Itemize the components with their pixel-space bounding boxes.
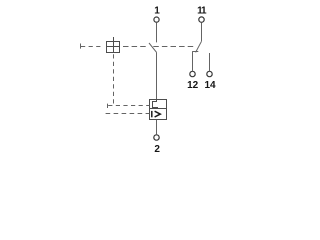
svg-text:2: 2 xyxy=(154,144,160,155)
svg-text:12: 12 xyxy=(187,80,199,91)
svg-text:11: 11 xyxy=(197,6,207,17)
svg-text:14: 14 xyxy=(204,80,216,91)
svg-text:1: 1 xyxy=(154,6,160,17)
